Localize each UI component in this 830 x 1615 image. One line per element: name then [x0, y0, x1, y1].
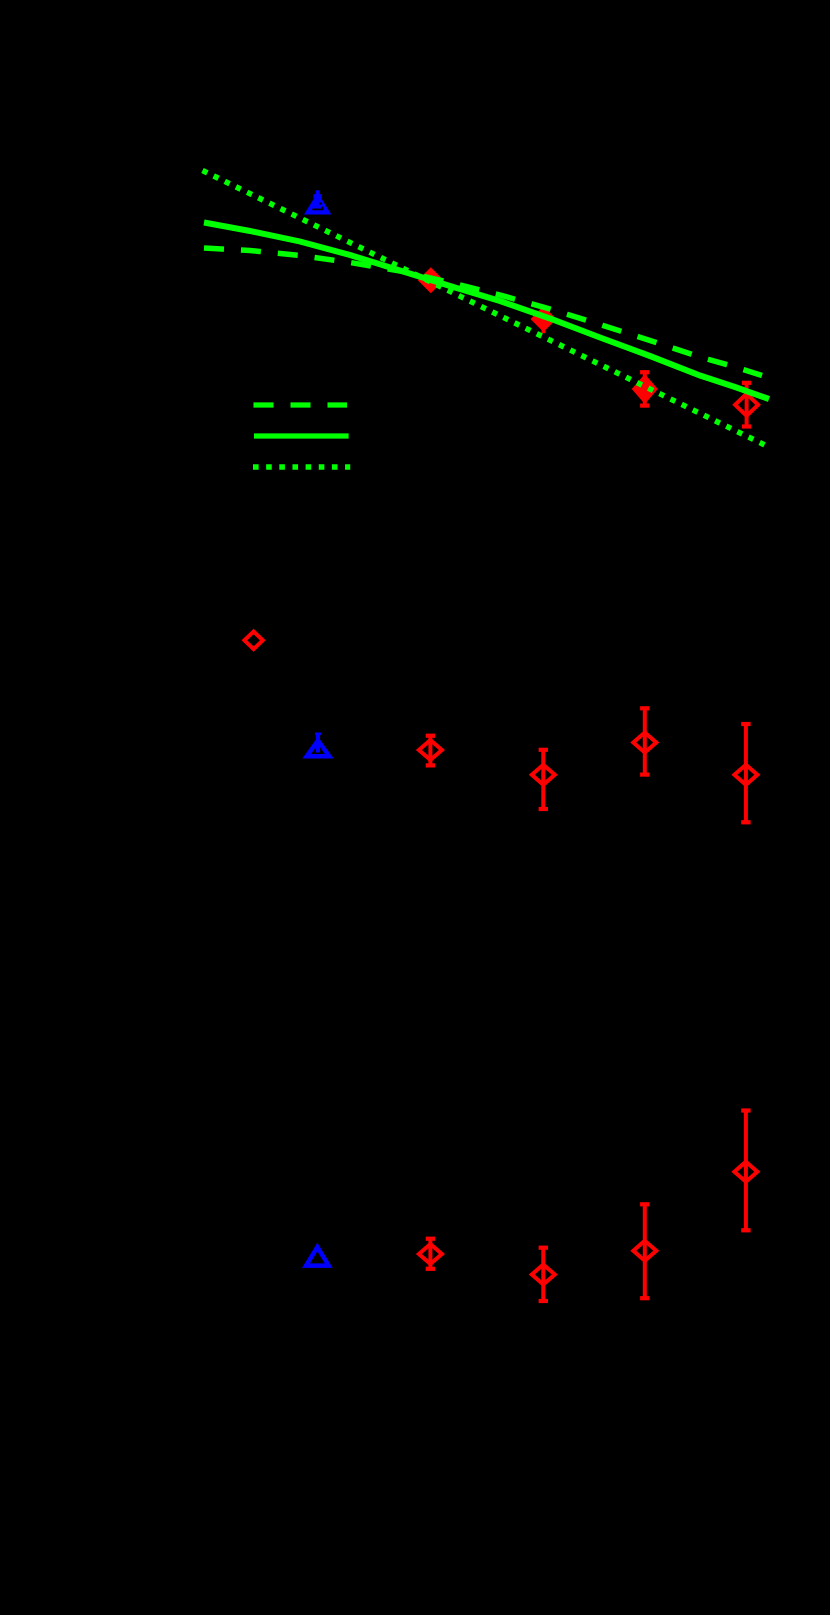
middle panel legend: open red diamond marker	[244, 632, 262, 650]
top panel: red data point 2 error bar	[542, 307, 546, 333]
middle panel: red data point 2	[541, 750, 545, 809]
top panel: blue triangle data point (filled) with error bar	[316, 190, 320, 206]
legend: dotted green line sample	[253, 464, 350, 470]
top panel: red data point 3 filled diamond	[632, 374, 658, 404]
top panel: red data point 1 filled diamond	[418, 267, 444, 293]
black tick marks inside blue triangle	[312, 208, 323, 210]
middle panel: blue triangle data point (open) with error bar	[316, 734, 320, 753]
top panel: red data point 3 error bar	[643, 372, 647, 405]
legend: solid green line sample	[254, 433, 349, 438]
top panel: red data point 4 error bar	[745, 383, 749, 427]
top panel: red data point 1 error bar (hidden under curves)	[429, 275, 433, 287]
legend: dashed green line sample	[254, 402, 348, 407]
middle panel: red data point 3	[643, 708, 647, 774]
bottom panel: red data point 4	[744, 1111, 748, 1231]
top panel: red data point 2 filled diamond	[531, 306, 557, 332]
top panel: green solid theory curve	[204, 223, 769, 400]
top panel: green dashed theory curve	[204, 248, 762, 376]
bottom panel: red data point 1	[428, 1239, 432, 1269]
bottom panel: red data point 3	[643, 1204, 647, 1298]
bottom panel: blue triangle data point (open)	[306, 1247, 329, 1266]
top panel: green dotted theory curve	[203, 171, 769, 447]
middle panel: red data point 1	[428, 736, 432, 766]
top panel: red data point 4 open diamond	[735, 394, 758, 416]
middle panel: red data point 4	[744, 724, 748, 822]
bottom panel: red data point 2	[541, 1248, 545, 1301]
